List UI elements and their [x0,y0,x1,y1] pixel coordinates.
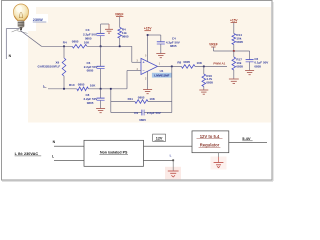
ground (R16) [199,90,208,94]
node X9 top junction [63,45,65,47]
svg-text:R8: R8 [177,60,181,64]
block Non isolated PS [84,140,144,166]
node R16 junction [203,66,205,68]
svg-text:GAR32B100FLF: GAR32B100FLF [38,64,61,68]
svg-text:VREF: VREF [115,12,124,16]
svg-text:0805: 0805 [122,34,129,38]
svg-text:PWM A1: PWM A1 [213,62,225,66]
resistor R16 (pulldown) [202,66,213,90]
svg-text:Non isolated PS: Non isolated PS [100,151,128,155]
svg-text:230W: 230W [33,18,43,22]
power VREF (right) [209,43,218,51]
label 230W [32,14,49,23]
schematic sheet (cream canvas) [28,7,271,123]
wire bottom rail [48,71,141,89]
wire N to PS box [54,145,84,147]
svg-text:+15V: +15V [144,27,152,31]
label L IN: 230VAC [15,152,42,156]
svg-text:R4: R4 [63,41,67,45]
net label L (ground tap) [170,154,172,158]
capacitor C6 (between rails) [84,46,105,89]
page border frame [2,1,273,181]
label 12V (boxed) [153,134,166,141]
svg-text:2.2µF 50V: 2.2µF 50V [147,111,161,115]
svg-text:0805: 0805 [138,96,145,100]
wire top rail [42,46,142,62]
resistor R8 (output, horizontal) [177,60,202,68]
svg-text:0805: 0805 [85,36,92,40]
node C8 junction [100,88,102,90]
svg-text:0805: 0805 [206,81,213,85]
node C3/C6 junction [100,45,102,47]
svg-text:+: + [143,61,145,65]
power +15V (mid) [144,27,152,31]
svg-text:Regulator: Regulator [200,143,220,148]
wire lamp to N stub [6,29,19,59]
ground (op-amp) [143,90,152,94]
wire op-amp gnd stem [147,71,149,89]
resistor R14 [232,33,243,51]
ground (C3) [105,29,113,33]
svg-text:10K: 10K [84,41,90,45]
svg-text:0805: 0805 [254,64,261,68]
capacitor C9 (feedback) [111,110,172,122]
node X9 bottom junction [63,88,65,90]
op-amp U1 LMV611MF [137,55,172,81]
svg-text:0805: 0805 [183,60,190,64]
svg-text:R10: R10 [69,83,75,87]
svg-text:0805: 0805 [72,40,79,44]
svg-text:10K: 10K [90,83,96,87]
svg-text:VREF: VREF [209,43,218,47]
svg-text:0805: 0805 [236,64,243,68]
fuse X9 GAR32B100FLF [38,46,66,89]
ground (regulator) [211,153,227,170]
svg-text:12V: 12V [156,137,163,141]
ground (C6) [245,71,254,75]
svg-text:5.4V: 5.4V [242,136,251,141]
wire regulator output [229,141,267,143]
node VREF junction [233,50,235,52]
net label PWM A1 [213,62,225,66]
wire PS lower output [144,159,175,161]
node feedback junction [171,66,173,68]
svg-text:L: L [43,84,45,88]
svg-text:L: L [170,154,172,158]
svg-text:R11: R11 [128,97,134,101]
svg-text:C9: C9 [134,111,138,115]
svg-text:L IN: 230VAC: L IN: 230VAC [15,152,39,156]
svg-text:10K: 10K [149,97,155,101]
node +15V junction [147,34,149,36]
wire L to PS box [54,159,84,161]
svg-text:0805: 0805 [170,44,177,48]
node R4v junction [119,45,121,47]
resistor R17 [232,51,243,79]
wire lamp diagonal to top rail [21,31,42,47]
resistor R4 (top, horizontal) [63,40,90,49]
lamp lead wires [12,28,21,32]
svg-text:0805: 0805 [236,40,243,44]
net label L (bottom rail) [43,84,46,88]
wire op-amp output rail [158,65,228,67]
ground (R17) [229,79,239,84]
lamp LP1 (light bulb image, white box) [5,1,36,33]
node L (PS input) [52,155,54,159]
svg-text:0805: 0805 [78,82,85,86]
net label 5.4V [242,136,252,141]
ground (PS output, pink halo) [165,160,181,179]
wire feedback left vertical [110,89,112,113]
svg-text:12V to 5.4: 12V to 5.4 [200,134,220,139]
capacitor C3 (to ground bracket) [83,24,109,46]
wire feedback right vertical [171,66,173,112]
resistor R10 (bottom, horizontal) [69,82,96,90]
svg-text:10K: 10K [197,61,203,65]
node N (PS input) [53,140,56,144]
svg-text:−: − [143,69,145,73]
capacitor C8 [83,89,104,109]
svg-text:0805: 0805 [87,101,94,105]
capacitor C6 (VREF filter) [246,51,269,70]
capacitor C4 [148,35,180,53]
svg-text:0805: 0805 [139,118,146,122]
power +15V (right) [230,18,238,33]
node feedback tap junction [110,88,112,90]
svg-text:L: L [52,155,54,159]
resistor R11 (feedback) [111,96,172,104]
svg-text:U1: U1 [160,69,164,73]
wire op-amp V+ stem [147,35,149,62]
wire PS to regulator [144,145,193,147]
wire VREF rail [213,50,249,52]
block 12V to 5.4 Regulator [192,131,229,153]
ground (C8) [96,109,105,113]
svg-text:0805: 0805 [87,69,94,73]
svg-text:LMV611MF: LMV611MF [154,74,169,78]
node N [9,54,12,58]
ground (C4) [156,54,165,58]
power VREF (top) [115,12,124,27]
svg-text:+15V: +15V [230,18,238,22]
resistor R4 (vertical to VREF) [118,27,129,46]
